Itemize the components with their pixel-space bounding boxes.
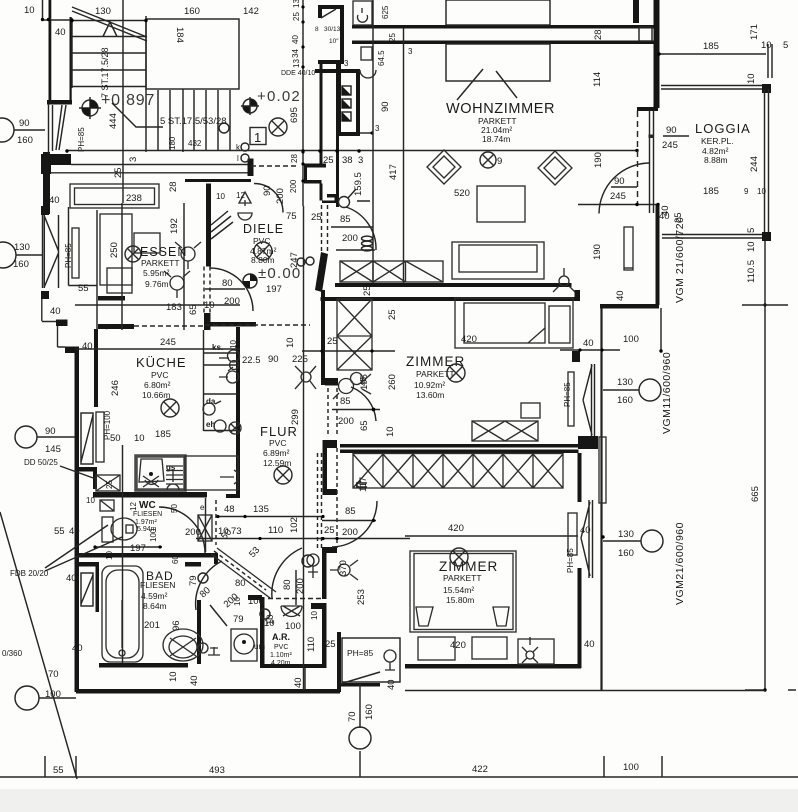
svg-text:um: um (254, 642, 265, 651)
wall essen corner top (41, 206, 49, 215)
dim line y350 right (560, 349, 620, 351)
stair rails (72, 0, 146, 203)
wall bad top left block (75, 562, 99, 567)
svg-text:FDB 20/20: FDB 20/20 (10, 569, 49, 578)
stair treads (72, 21, 146, 87)
svg-text:253: 253 (356, 589, 367, 605)
svg-text:160: 160 (13, 259, 29, 270)
wall flur bottom left stub (226, 494, 240, 498)
wall vestibule right (340, 9, 344, 64)
wall zimmer1 right corner (575, 290, 581, 301)
radiator essen (72, 228, 79, 278)
wall kueche flur divider (236, 327, 240, 497)
svg-text:10″: 10″ (329, 38, 339, 45)
tap right (220, 470, 238, 484)
desk X (472, 421, 538, 441)
wall diele left lower stub (204, 313, 211, 330)
warning triangle (239, 192, 251, 203)
wall top window band upper (352, 25, 658, 29)
door arc essen (210, 268, 253, 311)
svg-text:DD 50/25: DD 50/25 (24, 458, 58, 467)
svg-text:50: 50 (110, 433, 121, 444)
svg-text:200: 200 (289, 179, 298, 193)
pot symbol (167, 470, 179, 490)
corner post bottom (762, 232, 771, 241)
armchair right (538, 151, 572, 185)
wall wc bottom (75, 553, 218, 558)
washbasin neighbor (361, 47, 372, 60)
svg-text:10: 10 (24, 5, 35, 16)
svg-text:160: 160 (17, 135, 33, 146)
svg-text:WC: WC (139, 500, 156, 511)
svg-text:114: 114 (592, 72, 603, 87)
wall bad bottom interior (99, 663, 188, 668)
svg-text:625: 625 (381, 5, 390, 19)
wall stair vestibule divider (320, 64, 323, 167)
table (100, 214, 132, 285)
loggia rail right (765, 89, 769, 235)
svg-text:55: 55 (78, 283, 89, 294)
svg-text:117: 117 (358, 477, 369, 492)
svg-text:185: 185 (155, 429, 171, 440)
dd box (96, 475, 120, 491)
wall kueche top (98, 324, 134, 329)
svg-text:40: 40 (583, 338, 594, 349)
wall diele left (206, 184, 211, 267)
tap symbol 2 (227, 371, 239, 383)
wall jamb foot (327, 489, 337, 495)
half circle symbol (243, 99, 257, 113)
svg-text:0/360: 0/360 (2, 649, 23, 658)
entry door arc (346, 207, 376, 250)
loggia door frame (650, 110, 654, 213)
svg-text:432: 432 (188, 139, 202, 148)
svg-text:40: 40 (72, 643, 83, 654)
wc door arc (159, 507, 205, 553)
svg-text:5: 5 (746, 228, 757, 233)
svg-text:28: 28 (168, 181, 179, 192)
wall niche h2 (304, 180, 322, 184)
svg-text:1: 1 (254, 130, 261, 145)
svg-text:100: 100 (623, 762, 639, 773)
wall zimmer1 right block (572, 351, 580, 362)
wall wc kueche divider (93, 492, 207, 498)
door hatch lines (211, 211, 233, 239)
wall bad inner left (96, 562, 100, 612)
svg-text:25: 25 (387, 309, 398, 320)
svg-text:DDE 40/10: DDE 40/10 (281, 70, 315, 77)
wall vestibule pocket (185, 179, 251, 182)
entry door leaf line (336, 249, 375, 251)
dim row y151 ticks (65, 149, 68, 152)
svg-text:7 ST.17.5/28: 7 ST.17.5/28 (100, 47, 110, 98)
svg-text:4.20m: 4.20m (271, 660, 291, 667)
svg-text:200: 200 (338, 416, 354, 427)
svg-text:10: 10 (233, 597, 242, 606)
svg-text:65: 65 (188, 304, 199, 315)
svg-text:15.80m: 15.80m (446, 595, 474, 605)
svg-text:180: 180 (168, 136, 177, 150)
nightstand 1 (418, 637, 455, 660)
svg-text:9: 9 (497, 156, 502, 167)
wall right of ar column (337, 632, 341, 692)
wall block below stair window (41, 154, 71, 165)
wall niche v2 (304, 168, 307, 181)
bed zimmer2 (410, 551, 516, 632)
svg-text:25: 25 (327, 336, 338, 347)
svg-text:130: 130 (95, 6, 111, 17)
threshold ellipses (362, 236, 373, 241)
svg-text:520: 520 (454, 188, 470, 199)
svg-text:493: 493 (209, 765, 225, 776)
wall vestibule top (318, 5, 344, 9)
wall zimmer2 right lower (578, 568, 582, 668)
circle after label (219, 123, 229, 133)
svg-text:238: 238 (126, 193, 142, 204)
svg-text:ZIMMER: ZIMMER (406, 354, 465, 369)
svg-text:10.92m²: 10.92m² (414, 380, 445, 390)
svg-text:PARKETT: PARKETT (443, 573, 482, 583)
dim line y305 (75, 304, 240, 306)
svg-text:10: 10 (746, 73, 757, 84)
svg-text:90: 90 (45, 426, 56, 437)
window stairwell (47, 100, 72, 105)
wall vestibule left stub (318, 9, 322, 18)
black door leaf (315, 252, 328, 292)
svg-text:110: 110 (306, 637, 317, 652)
svg-text:185: 185 (703, 41, 719, 52)
circle X zimmer2 (450, 548, 468, 566)
svg-text:190: 190 (592, 244, 603, 260)
circle X zimmer1 (447, 364, 465, 382)
svg-text:1.97m²: 1.97m² (135, 519, 157, 526)
stair arrow (103, 22, 117, 37)
svg-text:142: 142 (243, 6, 259, 17)
svg-text:40: 40 (50, 306, 61, 317)
circle X symbol (269, 118, 287, 136)
svg-text:184: 184 (174, 27, 185, 43)
svg-text:25: 25 (113, 167, 124, 178)
svg-text:25: 25 (362, 285, 373, 296)
wall top right black bit (633, 0, 639, 23)
svg-text:135: 135 (253, 504, 269, 515)
armchair 2 (170, 276, 184, 290)
dimension line top (43, 0, 73, 20)
coffee table (477, 186, 525, 222)
svg-text:64.5: 64.5 (377, 50, 386, 66)
recess above top wall (446, 0, 550, 25)
svg-text:10: 10 (105, 551, 114, 560)
lamp symbol (238, 200, 252, 220)
circle 90/145 (15, 426, 37, 448)
wall vestibule bottom (318, 60, 344, 64)
radiator channel (599, 437, 606, 503)
svg-text:444: 444 (108, 113, 119, 129)
wall left of ESSEN above window (43, 152, 50, 214)
svg-text:10: 10 (218, 526, 229, 537)
wall ar right (322, 603, 327, 668)
svg-text:79: 79 (188, 575, 199, 586)
circle 70/100 (15, 686, 39, 710)
svg-text:420: 420 (461, 334, 477, 345)
svg-text:10.66m: 10.66m (142, 390, 170, 400)
dashed lines (205, 324, 310, 326)
svg-text:110: 110 (268, 525, 283, 536)
svg-text:25: 25 (323, 155, 334, 166)
symbols lower flur (301, 372, 311, 382)
wall stairhall bottom outline (51, 165, 251, 173)
door diagonal vestibule (321, 9, 336, 18)
svg-text:10: 10 (761, 40, 772, 51)
svg-text:45: 45 (359, 377, 368, 386)
wall shaft bottom (336, 132, 360, 136)
svg-text:7: 7 (105, 325, 116, 330)
svg-text:420: 420 (448, 523, 464, 534)
bottom gray strip (0, 789, 798, 812)
wall right corner block (637, 107, 658, 111)
svg-text:ZIMMER: ZIMMER (439, 559, 498, 574)
svg-text:100: 100 (149, 528, 158, 542)
shaft left wall (337, 64, 341, 136)
shaft top wall (315, 69, 360, 73)
corner post top (762, 84, 771, 93)
svg-text:40: 40 (69, 526, 80, 537)
svg-text:10: 10 (264, 618, 275, 629)
svg-text:90: 90 (666, 125, 677, 136)
shaft box near wc door (198, 515, 212, 541)
svg-text:417: 417 (388, 164, 399, 180)
svg-text:85: 85 (345, 506, 356, 517)
svg-text:+0.02: +0.02 (257, 88, 301, 105)
svg-text:40: 40 (291, 35, 300, 44)
door knob circle (339, 197, 350, 208)
wall stairhall bottom left block (41, 158, 51, 174)
tap symbol 1 (228, 350, 240, 362)
svg-text:3: 3 (408, 47, 413, 56)
svg-text:28: 28 (290, 154, 299, 163)
wall step 2 block (65, 347, 79, 354)
svg-text:ESSEN: ESSEN (140, 245, 187, 259)
svg-text:VGM 21/600/720: VGM 21/600/720 (674, 217, 686, 303)
svg-text:l: l (237, 154, 239, 163)
svg-text:6.89m²: 6.89m² (263, 448, 290, 458)
dim col vertical (303, 206, 305, 690)
svg-text:PVC: PVC (253, 236, 270, 246)
svg-text:3: 3 (358, 155, 363, 166)
svg-text:70: 70 (347, 711, 358, 722)
half circle symbol (243, 274, 257, 288)
svg-text:PVC: PVC (274, 644, 288, 651)
svg-text:PARKETT: PARKETT (141, 258, 180, 268)
circle 90/160 top (0, 118, 14, 142)
svg-text:90: 90 (262, 185, 273, 196)
svg-text:420: 420 (450, 640, 466, 651)
svg-text:245: 245 (160, 337, 176, 348)
wall essen corner bottom (41, 291, 49, 299)
svg-text:79: 79 (233, 614, 244, 625)
wall wc inner left (93, 467, 97, 489)
wall outline below window (42, 299, 56, 322)
svg-text:90: 90 (19, 118, 30, 129)
dim line 185 (659, 53, 766, 55)
svg-text:73: 73 (231, 526, 242, 537)
armchair left (427, 150, 461, 184)
sideboard 238 (70, 184, 159, 208)
svg-text:85: 85 (340, 214, 351, 225)
wall wohnzimmer bottom step (600, 304, 659, 309)
step diagonal (340, 672, 380, 684)
svg-text:12: 12 (236, 191, 245, 200)
svg-text:102: 102 (289, 517, 300, 533)
window bad (81, 573, 93, 606)
svg-text:40: 40 (82, 341, 93, 352)
ph85 box (342, 638, 400, 682)
svg-text:130: 130 (14, 242, 30, 253)
dashed door opening (204, 267, 210, 314)
svg-text:201: 201 (144, 620, 160, 631)
svg-text:3: 3 (375, 124, 380, 133)
svg-text:4.59m²: 4.59m² (141, 591, 168, 601)
wall ar right upper (322, 547, 327, 599)
svg-text:160: 160 (618, 548, 634, 559)
wall stair left outer line (49, 0, 52, 104)
wall kueche top right jamb (204, 315, 208, 330)
svg-text:10: 10 (757, 187, 766, 196)
wall zimmer divider band 2 (340, 450, 579, 454)
svg-text:130: 130 (618, 529, 634, 540)
svg-text:KER.PL.: KER.PL. (701, 136, 734, 146)
nightstand 2 (472, 637, 507, 659)
radiator kueche (96, 412, 104, 462)
wall vestibule pocket cap (248, 159, 254, 177)
svg-text:25: 25 (325, 639, 336, 650)
circle X wohnzimmer (480, 152, 496, 168)
wall step 1 block (56, 320, 68, 327)
svg-text:PH=85: PH=85 (563, 382, 572, 407)
dim line y150 (67, 150, 637, 152)
svg-text:10: 10 (134, 433, 145, 444)
window circle 2 (641, 530, 663, 552)
svg-text:FLUR: FLUR (260, 424, 298, 439)
window kueche (81, 413, 93, 464)
diagonal door line (210, 605, 227, 626)
chair 1 (134, 233, 160, 253)
shaft right wall (356, 73, 360, 136)
svg-text:FLIESEN: FLIESEN (140, 580, 175, 590)
sink unit frame (136, 456, 185, 490)
dim line y351 flur (302, 350, 395, 352)
pillar white box (639, 27, 652, 41)
svg-text:40: 40 (584, 639, 595, 650)
dim line below loggia door (578, 204, 658, 206)
svg-text:34: 34 (291, 49, 300, 58)
loggia rail top (661, 86, 766, 90)
svg-text:3: 3 (128, 157, 139, 162)
svg-text:22.5: 22.5 (242, 355, 261, 366)
svg-text:13: 13 (292, 0, 301, 8)
wall flur right jamb horizontal (325, 440, 337, 448)
wall wohnzimmer left (336, 64, 339, 207)
svg-text:WOHNZIMMER: WOHNZIMMER (446, 101, 555, 117)
desk 2 + chair (518, 639, 554, 664)
svg-text:10: 10 (310, 611, 319, 620)
svg-text:40: 40 (49, 195, 60, 206)
svg-text:12: 12 (129, 502, 138, 511)
box 1 (250, 128, 266, 145)
svg-text:85: 85 (340, 396, 351, 407)
ar top dashed (268, 598, 322, 600)
circle X (125, 246, 141, 262)
circle X flur (274, 466, 292, 484)
wall ar right jog (311, 603, 323, 609)
svg-text:422: 422 (472, 764, 488, 775)
wall bad pilaster right (185, 562, 201, 567)
sofa (452, 242, 544, 279)
svg-text:130: 130 (617, 377, 633, 388)
armchair 1 (181, 247, 195, 261)
svg-text:159.5: 159.5 (353, 172, 364, 196)
window essen outline (43, 215, 59, 288)
svg-text:10: 10 (86, 496, 95, 505)
dashed opening top (251, 165, 299, 167)
dim line (405, 535, 578, 537)
svg-text:3: 3 (344, 59, 349, 68)
svg-text:185: 185 (703, 186, 719, 197)
E box (100, 500, 114, 511)
svg-text:695: 695 (289, 107, 300, 123)
svg-text:ks.: ks. (212, 343, 223, 352)
svg-text:48: 48 (224, 504, 235, 515)
svg-text:PVC: PVC (269, 438, 286, 448)
wardrobe X band wohnzimmer (340, 261, 443, 282)
svg-text:PH=85: PH=85 (566, 548, 575, 573)
svg-text:80: 80 (282, 579, 293, 590)
small sink symbol (360, 70, 376, 78)
dashed entry opening (322, 205, 328, 251)
svg-text:VGM11/600/960: VGM11/600/960 (661, 352, 673, 434)
dim circle bottom (349, 727, 371, 749)
window right (581, 500, 593, 578)
window circle 1 (639, 379, 661, 401)
svg-text:90: 90 (268, 354, 279, 365)
bathtub (102, 566, 143, 662)
circle 130/160 (0, 242, 16, 268)
svg-text:A.R.: A.R. (272, 632, 290, 642)
wall step outline (58, 326, 66, 347)
svg-text:160: 160 (617, 395, 633, 406)
svg-text:KÜCHE: KÜCHE (136, 355, 187, 370)
svg-text:5 ST.17.5/53/28: 5 ST.17.5/53/28 (160, 116, 227, 127)
svg-text:160: 160 (364, 704, 375, 720)
svg-text:40: 40 (55, 27, 66, 38)
svg-text:40: 40 (66, 573, 77, 584)
svg-text:55: 55 (54, 526, 65, 537)
sideboard under window (446, 44, 550, 81)
radiator zimmer2 (568, 513, 577, 555)
svg-text:100: 100 (285, 621, 301, 632)
circle X kueche (161, 399, 179, 417)
svg-text:260: 260 (387, 374, 398, 390)
svg-text:100: 100 (45, 689, 61, 700)
circle X diele (254, 242, 272, 260)
svg-text:55: 55 (53, 765, 64, 776)
arrow symbol (356, 481, 367, 489)
svg-text:245: 245 (662, 140, 678, 151)
leaders to label (457, 69, 517, 100)
window zimmer1 right (583, 364, 595, 436)
faucet cross (143, 476, 159, 487)
radiator wohnzimmer right (624, 227, 633, 270)
